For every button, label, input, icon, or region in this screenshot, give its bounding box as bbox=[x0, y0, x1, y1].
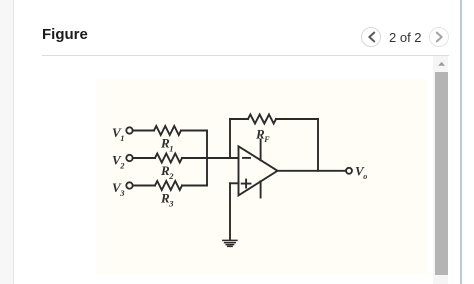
wire op-amp output bbox=[278, 170, 347, 172]
chevron right of next button bbox=[437, 33, 442, 42]
wire noninverting input bbox=[230, 182, 239, 184]
terminal V1 bbox=[126, 127, 132, 133]
wire feedback riser at inverting node bbox=[229, 119, 231, 158]
wire feedback drop to output bbox=[317, 119, 319, 171]
resistor R1 bbox=[154, 126, 181, 135]
wire feedback top left bbox=[230, 118, 248, 120]
left sidebar strip bbox=[0, 0, 14, 284]
next page button bbox=[429, 27, 449, 47]
wire R2 to op-amp inverting input bbox=[182, 157, 239, 159]
resistor Rf bbox=[248, 115, 276, 124]
resistor R3 bbox=[155, 181, 182, 190]
wire R1 to bus bbox=[181, 130, 207, 132]
cream figure background bbox=[96, 79, 427, 274]
header "Figure" bbox=[42, 26, 88, 43]
svg-text:F: F bbox=[263, 135, 270, 144]
terminal V3 bbox=[126, 182, 132, 188]
svg-text:3: 3 bbox=[119, 188, 125, 198]
scrollbar up arrow bbox=[438, 62, 445, 66]
blue right border line bbox=[460, 0, 462, 284]
wire V2 to R2 bbox=[133, 157, 155, 159]
wire ground drop bbox=[229, 183, 231, 240]
terminal Vo bbox=[346, 168, 352, 174]
wire feedback top right bbox=[276, 118, 318, 120]
svg-text:1: 1 bbox=[169, 143, 173, 153]
svg-text:3: 3 bbox=[168, 198, 174, 208]
svg-text:o: o bbox=[363, 172, 367, 181]
svg-text:1: 1 bbox=[120, 133, 124, 143]
svg-text:2: 2 bbox=[168, 171, 174, 181]
op-amp U1 bbox=[239, 146, 278, 195]
page count 2 of 2 bbox=[389, 30, 422, 45]
wire summing bus bbox=[206, 131, 208, 186]
wire R3 to bus bbox=[182, 185, 207, 187]
minus marker bbox=[243, 157, 250, 159]
scrollbar track bbox=[433, 56, 448, 284]
chevron left of prev button bbox=[369, 33, 374, 42]
svg-text:2: 2 bbox=[119, 161, 125, 171]
ground bbox=[223, 240, 237, 246]
scrollbar thumb bbox=[435, 72, 448, 275]
negative supply pin bbox=[260, 181, 262, 197]
plus marker bbox=[242, 180, 251, 188]
terminal V2 bbox=[126, 155, 132, 161]
wire V1 to R1 bbox=[133, 130, 154, 132]
prev page button bbox=[361, 27, 381, 47]
wire V3 to R3 bbox=[133, 185, 155, 187]
header divider bbox=[42, 55, 449, 56]
positive supply pin bbox=[260, 140, 262, 161]
resistor R2 bbox=[155, 154, 182, 163]
